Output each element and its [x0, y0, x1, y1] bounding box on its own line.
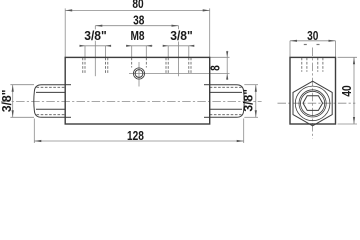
svg-text:38: 38 [133, 14, 145, 28]
svg-text:30: 30 [307, 29, 318, 43]
svg-text:8: 8 [208, 65, 222, 71]
svg-text:3/8": 3/8" [0, 89, 14, 112]
svg-text:3/8": 3/8" [84, 29, 107, 43]
svg-text:80: 80 [132, 0, 143, 11]
svg-text:40: 40 [340, 85, 354, 96]
svg-text:M8: M8 [130, 29, 145, 43]
svg-text:3/8": 3/8" [241, 89, 255, 112]
svg-text:128: 128 [127, 129, 144, 143]
svg-text:3/8": 3/8" [170, 29, 193, 43]
